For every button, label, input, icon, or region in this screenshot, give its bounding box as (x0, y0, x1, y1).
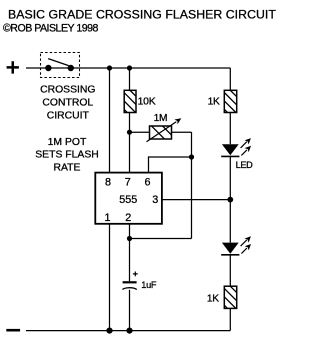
wire: pin 1 to ground rail (109, 224, 111, 331)
wire: right rail top (229, 68, 231, 90)
wire: pin 2 tie to pot net (130, 238, 192, 240)
node dot C (10K / pot / pin 7) (127, 130, 132, 135)
capacitor C1 plus mark (133, 272, 138, 277)
node dot H (cap to ground rail) (126, 328, 132, 334)
IC U1 555 timer body (95, 173, 162, 224)
svg-text:1: 1 (104, 212, 110, 224)
wire: 1K to LED1 (229, 113, 231, 145)
potentiometer R2 1M body (150, 126, 172, 139)
crossing control circuit dashed box (41, 53, 80, 78)
node dot G (pin 1 to ground rail) (106, 328, 112, 334)
resistor R1 10K hatch (124, 91, 136, 113)
svg-text:1uF: 1uF (141, 280, 157, 290)
LED D2 triangle (222, 243, 239, 254)
svg-text:8: 8 (105, 177, 111, 189)
wire: pin 2 down to capacitor (129, 224, 131, 281)
resistor R4 1K body (224, 286, 236, 308)
wire: pot right lead (172, 131, 192, 133)
potentiometer R2 hatch (152, 126, 172, 139)
svg-text:1M: 1M (154, 113, 168, 124)
svg-text:10K: 10K (138, 97, 156, 108)
capacitor C1 bottom plate (122, 288, 136, 290)
svg-text:6: 6 (144, 177, 150, 189)
svg-text:7: 7 (125, 177, 131, 189)
node dot E (pin 2 / cap) (127, 236, 132, 241)
wire: pin 8 drop (109, 68, 111, 173)
wire: 10K top lead (129, 68, 131, 90)
switch S1 contact left (45, 65, 51, 71)
svg-text:BASIC GRADE CROSSING FLASHER C: BASIC GRADE CROSSING FLASHER CIRCUIT (8, 8, 276, 22)
LED D2 arrow 2 (241, 244, 251, 254)
resistor R3 1K body (224, 90, 236, 112)
svg-text:CONTROL: CONTROL (42, 97, 93, 108)
LED D1 arrow 2 (241, 146, 251, 156)
wire: pot right vertical to pin2 net (191, 132, 193, 238)
svg-text:RATE: RATE (54, 163, 81, 174)
node dot A (top rail to pin 8) (107, 65, 112, 70)
switch S1 contact right (68, 65, 74, 71)
svg-text:3: 3 (152, 194, 158, 206)
svg-text:1K: 1K (208, 97, 220, 108)
svg-text:1M POT: 1M POT (48, 137, 87, 148)
node dot D (pin 6 junction) (189, 154, 194, 159)
wire: pin 3 output (162, 199, 230, 201)
wire: 10K bottom lead to node (129, 113, 131, 173)
node dot B (top rail to 10K) (127, 65, 132, 70)
svg-text:1K: 1K (207, 294, 219, 305)
svg-text:©ROB PAISLEY 1998: ©ROB PAISLEY 1998 (3, 23, 99, 35)
wire: bottom ground rail (26, 330, 230, 332)
capacitor C1 top plate (123, 281, 137, 283)
svg-text:LED: LED (236, 160, 254, 170)
LED D1 triangle (222, 144, 239, 155)
node dot F (pin 3 to LED rail) (227, 197, 233, 203)
- supply terminal (6, 329, 20, 332)
+ supply terminal (7, 61, 19, 73)
wire: capacitor to ground rail (129, 290, 131, 331)
wire: pot left lead (130, 131, 150, 133)
svg-text:555: 555 (119, 194, 137, 206)
LED D1 cathode bar (221, 155, 239, 157)
resistor R3 1K hatch (224, 91, 236, 113)
svg-text:CIRCUIT: CIRCUIT (47, 110, 90, 121)
wire: LED1 to LED2 (229, 156, 231, 242)
resistor R1 10K body (124, 90, 136, 112)
potentiometer R2 wiper arrow (147, 122, 177, 142)
svg-text:SETS FLASH: SETS FLASH (35, 150, 99, 161)
switch S1 arm (48, 59, 68, 66)
LED D1 arrow 1 (241, 138, 251, 148)
wire: pin 6 lead (149, 157, 192, 173)
svg-text:CROSSING: CROSSING (40, 85, 95, 96)
resistor R4 1K hatch (224, 286, 236, 308)
svg-text:2: 2 (125, 212, 131, 224)
LED D2 cathode bar (221, 254, 239, 256)
wire: top positive rail (26, 67, 230, 69)
LED D2 arrow 1 (241, 236, 251, 246)
wire: 1K lower to ground rail (229, 308, 231, 330)
wire: LED2 to 1K lower (229, 255, 231, 286)
